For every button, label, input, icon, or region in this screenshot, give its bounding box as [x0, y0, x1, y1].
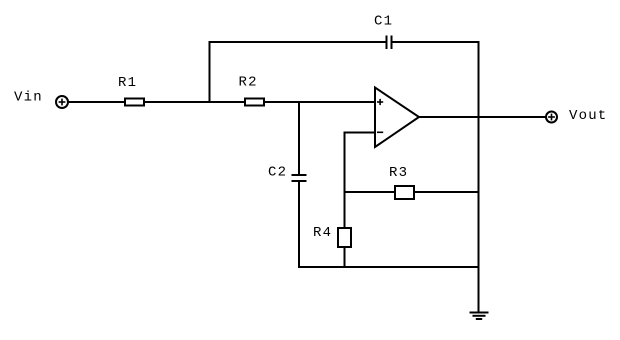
svg-text:C2: C2 [268, 165, 287, 181]
wire R2 to op-amp non-inverting input [264, 101, 375, 103]
resistor R3 [395, 186, 414, 199]
svg-text:C1: C1 [374, 14, 393, 30]
wire op-amp inverting input left and down to feedback node [345, 133, 376, 194]
wire feedback node down to R4 [344, 192, 346, 229]
wire node A up and top to C1 left plate [210, 42, 386, 102]
wire feedback node to R3 [345, 191, 397, 193]
wire R3 to right vertical rail [414, 191, 479, 193]
wire op-amp output to Vout terminal [419, 116, 547, 118]
wire R4 down to bottom rail [344, 247, 346, 268]
op-amp U1 [375, 88, 419, 148]
svg-text:Vout: Vout [569, 108, 607, 124]
resistor R1 [125, 99, 144, 106]
wire node B down to C2 top plate [298, 102, 300, 174]
svg-text:R2: R2 [239, 75, 258, 91]
wire R1 to node A [144, 101, 246, 103]
resistor R4 [338, 228, 351, 247]
wire C2 bottom plate down to bottom rail [298, 182, 300, 268]
wire Vin terminal to R1 [68, 101, 127, 103]
resistor R2 [245, 99, 264, 106]
svg-text:Vin: Vin [14, 90, 43, 106]
svg-text:R1: R1 [118, 75, 137, 91]
svg-text:R3: R3 [389, 165, 408, 181]
ground [470, 313, 489, 320]
node Vout output port terminal [546, 112, 557, 123]
capacitor C1 [387, 36, 392, 50]
node Vin input port terminal [56, 96, 68, 108]
capacitor C2 [292, 175, 307, 181]
svg-text:R4: R4 [313, 225, 332, 241]
wire right rail down to ground [478, 267, 480, 313]
wire bottom rail [299, 266, 479, 268]
wire C1 right plate to right vertical rail down to bottom [393, 42, 479, 268]
